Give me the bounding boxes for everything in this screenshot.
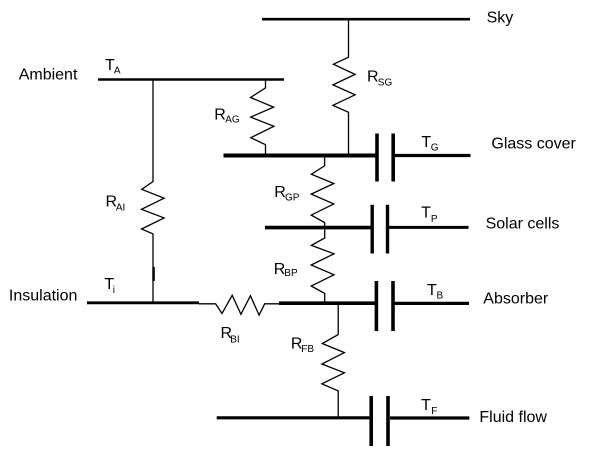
wire thick dash on RAI lead bbox=[152, 267, 154, 281]
svg-text:T: T bbox=[421, 205, 431, 222]
resistor RBI bbox=[199, 295, 279, 315]
node Absorber line bbox=[279, 301, 469, 305]
label RAI bbox=[106, 193, 126, 213]
label RSG bbox=[367, 69, 392, 89]
node Sky line bbox=[262, 18, 470, 21]
svg-text:Glass cover: Glass cover bbox=[491, 136, 576, 153]
label TF bbox=[421, 397, 437, 417]
label Ti bbox=[104, 276, 115, 296]
node Insulation line bbox=[87, 301, 199, 304]
label TP bbox=[421, 205, 438, 226]
label RAG bbox=[214, 106, 240, 125]
svg-text:B: B bbox=[437, 291, 444, 302]
label TG bbox=[421, 134, 438, 154]
label TA bbox=[105, 57, 121, 77]
svg-text:T: T bbox=[427, 282, 437, 299]
svg-text:AI: AI bbox=[116, 203, 125, 214]
resistor RAG bbox=[251, 81, 274, 155]
svg-text:AG: AG bbox=[225, 114, 240, 125]
node Ambient line bbox=[98, 78, 284, 81]
svg-text:F: F bbox=[431, 406, 437, 417]
label RBI bbox=[221, 325, 240, 346]
svg-text:Insulation: Insulation bbox=[9, 287, 78, 304]
svg-text:GP: GP bbox=[285, 193, 300, 204]
node Solar cells line bbox=[265, 226, 469, 230]
svg-text:T: T bbox=[421, 397, 431, 414]
node Glass cover line bbox=[224, 154, 471, 158]
svg-text:Sky: Sky bbox=[487, 10, 514, 27]
svg-text:R: R bbox=[214, 106, 226, 123]
node Fluid flow line bbox=[217, 416, 470, 419]
resistor RGP bbox=[311, 156, 334, 227]
svg-text:G: G bbox=[431, 143, 439, 154]
resistor RAI bbox=[142, 81, 165, 303]
label RBP bbox=[274, 261, 298, 279]
label RFB bbox=[291, 335, 315, 355]
capacitor TP (solar cells) bbox=[372, 205, 387, 254]
resistor RBP bbox=[311, 228, 334, 303]
label TB bbox=[427, 282, 444, 302]
svg-text:BI: BI bbox=[230, 335, 239, 346]
svg-text:Solar cells: Solar cells bbox=[486, 216, 560, 233]
svg-text:SG: SG bbox=[378, 78, 393, 89]
resistor RFB bbox=[322, 303, 345, 417]
svg-text:Ambient: Ambient bbox=[19, 67, 78, 84]
svg-text:P: P bbox=[431, 214, 438, 225]
capacitor TB (absorber) bbox=[376, 281, 393, 331]
svg-text:BP: BP bbox=[284, 268, 298, 279]
svg-text:A: A bbox=[114, 66, 121, 77]
capacitor TF (fluid) bbox=[371, 396, 388, 446]
capacitor TG (glass) bbox=[377, 134, 393, 182]
svg-text:Fluid flow: Fluid flow bbox=[479, 409, 547, 426]
svg-text:FB: FB bbox=[301, 344, 314, 355]
svg-text:i: i bbox=[113, 285, 115, 296]
svg-text:Absorber: Absorber bbox=[483, 290, 549, 307]
resistor RSG bbox=[333, 21, 355, 156]
label RGP bbox=[274, 184, 299, 204]
